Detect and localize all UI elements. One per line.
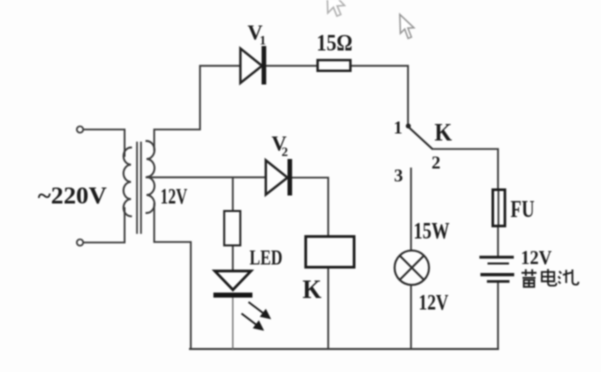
wire primary bottom — [84, 208, 125, 243]
svg-text:15W: 15W — [414, 219, 450, 244]
transformer primary winding — [124, 148, 132, 217]
diode V1 — [240, 46, 266, 85]
switch K blade — [409, 128, 432, 150]
bottom rail — [190, 348, 498, 350]
wire secondary tap to V2 — [147, 176, 266, 178]
diode V2 — [266, 159, 292, 196]
svg-text:1: 1 — [394, 118, 403, 138]
svg-text:2: 2 — [282, 144, 289, 159]
terminal top-left — [77, 126, 83, 132]
mouse cursor arrow — [400, 14, 414, 38]
wire fuse to battery — [497, 226, 499, 256]
svg-text:K: K — [435, 120, 453, 147]
LED — [213, 271, 252, 298]
wire contact 3 to lamp — [410, 169, 412, 251]
svg-text:15Ω: 15Ω — [317, 31, 353, 56]
resistor for LED — [224, 211, 240, 245]
wire switch 2 to fuse — [432, 149, 498, 190]
wire tap junction to LED resistor — [232, 178, 234, 211]
svg-text:LED: LED — [250, 246, 283, 270]
svg-text:2: 2 — [432, 153, 441, 173]
resistor R 15ohm — [318, 60, 351, 71]
relay coil K — [306, 237, 354, 268]
svg-text:K: K — [303, 275, 323, 304]
label chinese xudianchi (storage battery), drawn as strokes — [522, 269, 579, 287]
char chi (pool) — [558, 270, 578, 285]
fuse FU — [493, 190, 505, 226]
terminal bottom-left — [77, 239, 83, 245]
mouse cursor top (clipped) — [327, 0, 344, 16]
svg-text:12V: 12V — [419, 290, 449, 315]
lamp 15W 12V — [395, 251, 429, 285]
wire primary top — [84, 130, 125, 157]
char dian (electric) — [542, 269, 557, 286]
wire secondary bottom to bottom rail — [154, 204, 191, 349]
svg-text:12V: 12V — [160, 184, 187, 209]
wire relay to bottom rail — [327, 267, 329, 349]
wire resistor to switch contact 1 — [350, 66, 408, 124]
switch K contact 1 dot — [406, 124, 411, 129]
svg-text:12V: 12V — [521, 247, 552, 269]
transformer secondary winding — [147, 141, 155, 213]
wire V1 to resistor — [266, 65, 317, 67]
wire V2 to relay — [292, 178, 328, 237]
wire LED to bottom rail — [232, 298, 234, 349]
svg-text:1: 1 — [260, 33, 267, 48]
svg-text:FU: FU — [511, 197, 535, 223]
battery 12V — [479, 257, 514, 281]
transformer core — [136, 143, 138, 234]
wire lamp to bottom rail — [410, 285, 412, 350]
wire secondary top to V1 — [154, 66, 240, 150]
svg-text:3: 3 — [394, 166, 403, 186]
char xu (storage) — [522, 269, 537, 287]
wire battery to bottom rail — [497, 283, 499, 349]
wire LED resistor to LED — [232, 245, 234, 271]
svg-text:~220V: ~220V — [38, 184, 108, 210]
LED emission arrows — [242, 302, 270, 330]
